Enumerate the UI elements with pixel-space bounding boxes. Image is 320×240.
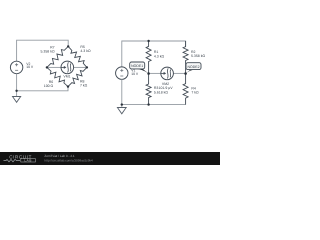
bridge junction dots xyxy=(67,45,69,47)
resistor R2 xyxy=(183,41,188,74)
svg-text:http://circuitlab.com/c/3099ac: http://circuitlab.com/c/3099ac5z9k4 xyxy=(44,159,93,163)
svg-text:5.358 kΩ: 5.358 kΩ xyxy=(191,54,205,58)
resistor R3 xyxy=(146,74,151,105)
watermark bar xyxy=(0,152,220,165)
junction dot R1 top xyxy=(147,40,149,42)
resistor R1 xyxy=(146,41,151,74)
svg-text:LAB: LAB xyxy=(24,159,32,163)
svg-text:4.3 kΩ: 4.3 kΩ xyxy=(80,49,91,53)
wire bridge bottom to source xyxy=(17,87,68,91)
voltage source V1 xyxy=(116,67,128,79)
logo LAB box xyxy=(21,159,36,162)
junction dot NODE2 xyxy=(184,72,187,75)
svg-text:NODE1: NODE1 xyxy=(131,64,143,68)
ground right xyxy=(117,108,126,114)
wire V2 bottom xyxy=(16,74,18,97)
svg-text:7 kΩ: 7 kΩ xyxy=(191,90,199,94)
logo resistor zigzag xyxy=(4,159,21,161)
voltage source V2 xyxy=(10,61,22,73)
svg-text:ZomTviat / Lab 3 - 2.1: ZomTviat / Lab 3 - 2.1 xyxy=(44,154,75,158)
voltmeter VM1 xyxy=(47,61,87,74)
junction dot NODE1 xyxy=(147,72,150,75)
svg-text:R1: R1 xyxy=(154,50,159,54)
resistor R7 (bridge top-left) xyxy=(47,46,68,67)
svg-text:10 V: 10 V xyxy=(131,72,139,76)
junction dot R3 bottom xyxy=(147,103,149,105)
ground left xyxy=(13,97,21,103)
svg-text:101.9 μV: 101.9 μV xyxy=(159,86,174,90)
svg-text:5.358 kΩ: 5.358 kΩ xyxy=(40,49,54,53)
resistor R6 (bridge bottom-left) xyxy=(47,67,68,86)
voltmeter VM2 xyxy=(149,67,186,80)
resistor R5 (bridge top-right) xyxy=(68,46,87,67)
wire top rail right circuit xyxy=(122,41,186,67)
svg-text:NODE2: NODE2 xyxy=(187,65,199,69)
svg-text:10 V: 10 V xyxy=(26,65,34,69)
junction dot bottom left xyxy=(15,90,17,92)
resistor R8 (bridge bottom-right) xyxy=(68,67,87,86)
junction dot bottom right circuit xyxy=(121,103,123,105)
svg-text:4.3 kΩ: 4.3 kΩ xyxy=(154,54,165,58)
node NODE1 flag xyxy=(130,62,149,74)
resistor R4 xyxy=(183,74,188,105)
svg-text:5.618 kΩ: 5.618 kΩ xyxy=(154,91,168,95)
svg-text:VM1: VM1 xyxy=(63,75,70,79)
wire top rail left circuit xyxy=(17,40,69,61)
node NODE2 flag xyxy=(186,63,201,74)
svg-text:7 kΩ: 7 kΩ xyxy=(80,83,88,87)
wire V1 bottom / bottom rail xyxy=(121,79,123,107)
svg-text:100 Ω: 100 Ω xyxy=(44,84,54,88)
